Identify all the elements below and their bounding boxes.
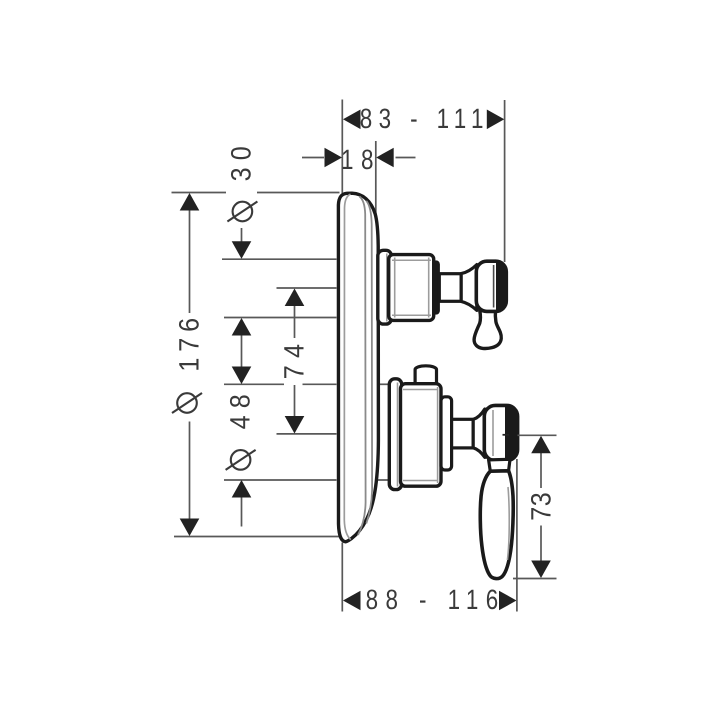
upper valve flange — [378, 250, 392, 324]
arrow 83-111 right — [487, 110, 505, 130]
dimension line 18 right tail — [396, 157, 416, 159]
thermostat safety button — [415, 366, 436, 384]
extension line lever front (116) — [516, 459, 518, 612]
svg-text:18: 18 — [341, 144, 381, 175]
dimension line 73 — [540, 452, 542, 488]
dimension 73 top line — [518, 434, 557, 436]
dimension line d30 stub — [241, 228, 243, 244]
arrow 73 bottom (down) — [531, 561, 551, 579]
extension line plate bottom horizontal — [174, 536, 350, 538]
dimension line d30/d48 middle stub — [241, 333, 243, 367]
extension line sleeve top (d30) — [222, 258, 337, 260]
lower lever grip highlight — [507, 487, 509, 560]
extension line plate-front vertical top — [341, 100, 343, 194]
upper valve hub adapter — [461, 265, 477, 311]
label 88 - 116 — [366, 584, 506, 615]
arrow d48 bottom (up) — [232, 480, 252, 498]
extension line lower axis — [277, 433, 337, 435]
thermostat stem — [452, 419, 474, 448]
dimension line d176 — [189, 208, 191, 313]
plate back rim contour line — [366, 201, 372, 524]
arrow 74 bottom (down) — [285, 416, 305, 434]
svg-text:88 - 116: 88 - 116 — [366, 584, 506, 615]
arrow d48 top (down) — [232, 367, 252, 385]
label d30 — [226, 139, 258, 222]
arrow 88-116 left — [343, 591, 361, 611]
upper valve sleeve — [389, 255, 434, 321]
upper valve stem — [439, 274, 461, 302]
upper valve collar — [433, 261, 439, 313]
arrow 73 top (up) — [531, 436, 551, 454]
thermostat sleeve body — [401, 384, 442, 487]
extension line plate top horizontal — [172, 192, 227, 194]
extension line upper knob front (111) — [504, 100, 506, 262]
extension line upper axis — [277, 287, 337, 289]
thermostat flange — [389, 379, 401, 490]
extension line thermostat bottom (d48) — [224, 479, 337, 481]
lower lever grip — [480, 471, 513, 579]
svg-text:74: 74 — [278, 337, 309, 379]
lower lever hub knob — [484, 405, 517, 460]
arrow 18 left (points right) — [325, 148, 343, 168]
dimension line 18 left tail — [302, 157, 324, 159]
thermostat collar ring — [441, 397, 452, 470]
svg-text:48: 48 — [225, 387, 256, 429]
label 73 — [526, 492, 557, 521]
extension line plate-back (18mm) — [375, 141, 377, 251]
upper lever hub knob — [476, 261, 506, 311]
lower lever hub black band — [505, 407, 518, 459]
dimension line d48 lower stub — [241, 495, 243, 527]
dimension 73 axis tick — [503, 434, 510, 436]
upper lever handle grip — [474, 311, 501, 349]
lower lever collar — [489, 459, 510, 471]
thermostat hub adapter — [473, 409, 485, 457]
svg-text:176: 176 — [174, 312, 205, 372]
label d48 — [225, 387, 256, 470]
extension line thermostat top (d48) — [224, 383, 284, 385]
arrow 88-116 right — [499, 591, 517, 611]
dimension line 74 — [294, 304, 296, 338]
arrow d30 bottom (up) — [232, 318, 252, 336]
label 18 — [341, 144, 381, 175]
arrow d176 top (up) — [180, 193, 200, 211]
arrow 74 top (up) — [285, 289, 305, 307]
arrow 83-111 left — [343, 110, 361, 130]
label 83 - 111 — [360, 103, 490, 134]
label 74 — [278, 337, 309, 379]
lower lever hub contour — [492, 410, 494, 456]
upper lever hub contour — [493, 265, 495, 308]
extension line plate-front vertical bottom — [341, 543, 343, 612]
arrow d176 bottom (down) — [180, 519, 200, 537]
arrow 18 right (points left) — [376, 148, 394, 168]
svg-text:83 - 111: 83 - 111 — [360, 103, 490, 134]
extension line sleeve bottom (d30) — [224, 317, 337, 319]
svg-text:73: 73 — [526, 492, 557, 521]
plate mid contour line — [358, 197, 366, 536]
upper lever hub black band — [496, 263, 507, 311]
arrow d30 top (down) — [232, 241, 252, 258]
label d176 — [172, 312, 205, 413]
escutcheon plate silhouette — [338, 193, 378, 542]
svg-text:30: 30 — [226, 139, 257, 181]
dimension 73 bottom line — [513, 578, 557, 580]
plate front face inner line — [344, 194, 351, 539]
